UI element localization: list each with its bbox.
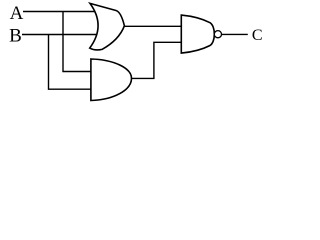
wire B branch down to AND gate lower input [49, 35, 91, 90]
or-gate [90, 3, 125, 50]
wire B label to OR gate lower input [22, 34, 98, 36]
svg-text:A: A [10, 3, 24, 24]
wire AND gate output up to NAND gate lower input [132, 42, 182, 78]
svg-text:B: B [9, 26, 22, 47]
wire A branch down to AND gate upper input [63, 12, 91, 72]
wire NAND bubble to output C [222, 33, 248, 35]
nand-gate body [181, 15, 214, 53]
and-gate [91, 59, 132, 101]
wire A label to OR gate upper input [23, 11, 96, 13]
wire OR gate output to NAND gate upper input [124, 25, 181, 27]
svg-text:C: C [252, 27, 263, 44]
nand-gate inversion bubble [214, 31, 221, 38]
